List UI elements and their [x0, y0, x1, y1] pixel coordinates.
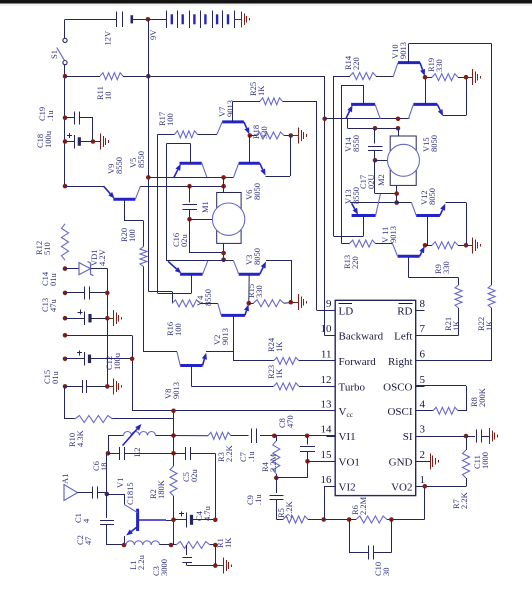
pin 10 Backward	[327, 335, 336, 337]
transistor V14 8550	[351, 103, 375, 106]
pin 15 VO1	[327, 461, 336, 463]
capacitor C16 02u	[187, 184, 192, 189]
antenna A1	[64, 485, 78, 501]
wire VI2 pin16	[321, 517, 326, 522]
svg-text:2.2M: 2.2M	[358, 496, 368, 515]
resistor R5 2.2K	[276, 519, 283, 521]
transistor V12 8050	[416, 214, 440, 217]
svg-text:Forward: Forward	[339, 356, 377, 368]
svg-text:C1815: C1815	[125, 482, 135, 505]
svg-text:7: 7	[420, 323, 426, 335]
svg-text:8050: 8050	[252, 183, 262, 200]
svg-text:V1: V1	[115, 478, 125, 488]
capacitor C9 .1u	[276, 478, 278, 493]
svg-text:1000: 1000	[480, 452, 490, 469]
svg-text:2: 2	[420, 449, 426, 461]
switch S1	[64, 19, 66, 38]
inductor L1 2.2u	[126, 541, 160, 545]
svg-text:4.7u: 4.7u	[202, 505, 212, 521]
resistor R24 1K	[233, 360, 273, 362]
resistor R20 100	[143, 221, 145, 247]
svg-text:Turbo: Turbo	[339, 381, 366, 393]
pin 12 Turbo	[327, 386, 336, 388]
resistor R1 1K	[176, 542, 210, 549]
wire V11 base	[408, 256, 410, 277]
svg-text:8550: 8550	[136, 151, 146, 168]
resistor R8 200K	[416, 385, 466, 387]
wire Right pin6	[424, 360, 491, 362]
resistor R14 220	[333, 76, 350, 78]
svg-text:330: 330	[434, 59, 444, 72]
ground at GND pin2	[424, 461, 430, 463]
node 12V+ / 9V tap junction	[146, 17, 151, 22]
svg-text:9V: 9V	[148, 29, 158, 40]
svg-text:5: 5	[420, 374, 426, 386]
svg-text:1K: 1K	[484, 320, 494, 331]
wire R4 bottom	[276, 477, 307, 479]
svg-text:220: 220	[351, 57, 361, 70]
resistor R16 100	[148, 291, 172, 293]
wire LD pin9 rail	[316, 101, 318, 310]
wire antenna node	[106, 453, 108, 518]
svg-text:6: 6	[420, 349, 426, 361]
resistor R12 510	[62, 224, 69, 260]
resistor R4 2.2M	[273, 441, 280, 474]
resistor R10 4.3K	[64, 386, 66, 419]
capacitor C18 100u electrolytic	[63, 139, 68, 144]
svg-text:100: 100	[165, 113, 175, 126]
wire Left pin7	[424, 335, 458, 337]
wire right bridge top rail	[325, 118, 410, 120]
svg-text:SI: SI	[403, 431, 413, 443]
ground at C11	[489, 428, 491, 444]
svg-text:LD: LD	[339, 305, 354, 317]
svg-text:2.2K: 2.2K	[459, 491, 469, 509]
capacitor C19 .1u	[63, 116, 68, 121]
transistor V3 8050	[239, 273, 260, 276]
wire bridge left top rail	[146, 175, 151, 180]
svg-text:8: 8	[420, 298, 426, 310]
svg-text:30: 30	[381, 568, 391, 577]
pin 4 OSCI	[416, 410, 425, 412]
capacitor C12 100u electrolytic	[63, 357, 68, 362]
svg-text:1K: 1K	[451, 320, 461, 331]
top border bar	[0, 0, 532, 4]
svg-text:510: 510	[42, 242, 52, 255]
ground at C13	[113, 310, 115, 326]
svg-text:1K: 1K	[274, 341, 284, 352]
svg-text:470: 470	[285, 415, 295, 428]
ground at R19	[472, 69, 474, 85]
transistor V8 9013	[180, 364, 202, 367]
wire SI pin3	[424, 436, 466, 438]
node rail-R11	[63, 74, 68, 79]
svg-text:2.2u: 2.2u	[136, 554, 146, 570]
resistor R18 330	[248, 133, 253, 138]
pin 6 Right	[416, 360, 425, 362]
ground at C18	[100, 134, 102, 150]
capacitor C11 1000	[466, 436, 475, 438]
wire bridge bottom rail	[166, 260, 233, 262]
motor M2	[398, 128, 400, 136]
pin 7 Left	[416, 335, 425, 337]
ground at C15	[113, 378, 115, 394]
wire R17 bus to V4 base	[157, 134, 159, 293]
capacitor C5 02u	[174, 453, 186, 455]
transistor V4 8550	[180, 273, 203, 276]
capacitor C14 01u	[63, 291, 68, 296]
zener diode VD1 4.2V	[63, 266, 68, 271]
ground at 9V battery	[241, 11, 243, 27]
capacitor C13 47u electrolytic	[63, 316, 68, 321]
svg-text:220: 220	[350, 256, 360, 269]
svg-text:OSCO: OSCO	[383, 381, 412, 393]
transistor V15 8050	[413, 103, 437, 106]
capacitor C4 4.7u electrolytic	[171, 518, 176, 523]
resistor R11 10	[65, 76, 100, 78]
resistor R21 1K	[455, 285, 462, 308]
svg-text:RD: RD	[397, 305, 412, 317]
svg-text:1K: 1K	[274, 368, 284, 379]
svg-text:180K: 180K	[156, 479, 166, 499]
svg-text:47: 47	[83, 537, 93, 546]
svg-text:13: 13	[321, 398, 333, 410]
svg-text:1: 1	[420, 474, 426, 486]
transistor V13 8550	[352, 214, 376, 217]
resistor R19 330	[423, 75, 428, 80]
transistor V5 8550	[180, 162, 202, 165]
transistor V1 C1815	[136, 509, 139, 531]
wire left rail upper	[64, 65, 66, 186]
svg-text:100: 100	[127, 229, 137, 242]
wire VO1 pin15	[308, 461, 336, 463]
pin 5 OSCO	[416, 386, 425, 388]
svg-text:9013: 9013	[388, 226, 398, 243]
wire right bridge bottom rail	[350, 202, 411, 204]
svg-text:9013: 9013	[171, 382, 181, 399]
svg-text:8050: 8050	[427, 188, 437, 205]
svg-text:10: 10	[321, 323, 333, 335]
wire 9V rail A	[148, 19, 150, 291]
svg-text:.1u: .1u	[253, 494, 263, 505]
svg-text:330: 330	[254, 285, 264, 298]
svg-text:VI1: VI1	[339, 431, 356, 443]
svg-text:12V: 12V	[103, 30, 113, 46]
transistor V2 9013	[221, 314, 245, 317]
capacitor C15 01u	[63, 384, 68, 389]
resistor R17 100	[158, 134, 175, 136]
svg-text:11: 11	[321, 349, 332, 361]
capacitor C10 30	[349, 520, 351, 553]
svg-text:9013: 9013	[398, 42, 408, 59]
svg-text:9013: 9013	[225, 100, 235, 117]
svg-text:3000: 3000	[159, 559, 169, 576]
capacitor C1 4	[92, 487, 94, 499]
resistor R7 2.2K	[463, 450, 470, 478]
svg-text:M1: M1	[200, 201, 210, 213]
svg-text:1K: 1K	[256, 85, 266, 96]
ground at R9	[472, 237, 474, 253]
svg-text:1K: 1K	[223, 537, 233, 548]
transistor V11 9013	[398, 255, 420, 258]
wire Vcc feed from left rail	[63, 333, 68, 338]
svg-text:3: 3	[420, 424, 426, 436]
svg-text:4.2V: 4.2V	[97, 248, 107, 266]
svg-text:.1u: .1u	[45, 110, 55, 121]
inductor L2 variable	[171, 433, 176, 438]
svg-text:330: 330	[441, 261, 451, 274]
pin 9 LD	[327, 310, 336, 312]
resistor R23 1K	[274, 383, 299, 390]
svg-text:12: 12	[321, 374, 332, 386]
svg-text:OSCI: OSCI	[387, 406, 412, 418]
pin 13 Vcc	[327, 410, 336, 412]
capacitor C8 470	[307, 436, 309, 445]
svg-text:01u: 01u	[50, 371, 60, 385]
svg-text:Left: Left	[394, 331, 412, 343]
svg-text:2.2K: 2.2K	[284, 500, 294, 518]
svg-text:Right: Right	[388, 356, 412, 368]
capacitor C6 18	[108, 436, 110, 454]
svg-text:VO1: VO1	[339, 456, 360, 468]
svg-text:GND: GND	[389, 456, 413, 468]
svg-text:.1u: .1u	[246, 451, 256, 462]
svg-text:47u: 47u	[48, 299, 58, 313]
resistor R6 2.2M	[347, 517, 352, 522]
svg-text:100u: 100u	[43, 130, 53, 148]
svg-text:4: 4	[420, 398, 426, 410]
capacitor C3 3000	[186, 545, 188, 555]
svg-text:9013: 9013	[220, 328, 230, 345]
svg-text:8050: 8050	[429, 135, 439, 152]
svg-text:02U: 02U	[366, 174, 376, 189]
pin 2 GND	[416, 461, 425, 463]
wire backward/right-bridge feed	[324, 76, 326, 335]
node V1 emitter	[122, 543, 127, 548]
resistor R25 1K	[233, 101, 260, 103]
wire VI1 pin14	[272, 434, 277, 439]
resistor R22 1K	[488, 285, 495, 308]
svg-text:VO2: VO2	[391, 481, 412, 493]
transistor V6 8050	[239, 162, 260, 165]
svg-text:4.3K: 4.3K	[75, 429, 85, 447]
wire Vcc rail receiver	[171, 409, 176, 414]
ground at C3	[223, 558, 225, 574]
wire VO2 loop	[424, 486, 426, 519]
resistor R15 330	[247, 301, 252, 306]
svg-text:100: 100	[173, 323, 183, 336]
pin 3 SI	[416, 436, 425, 438]
battery GB1 12V	[65, 19, 117, 21]
pin 14 VI1	[327, 436, 336, 438]
capacitor C7 .1u	[251, 429, 253, 444]
svg-text:10: 10	[103, 92, 113, 101]
pin 16 VI2	[327, 486, 336, 488]
capacitor C2 47	[100, 520, 114, 522]
svg-text:A1: A1	[60, 474, 70, 484]
svg-text:02u: 02u	[179, 234, 189, 248]
ground at R18	[298, 128, 300, 144]
svg-text:2.2M: 2.2M	[268, 453, 278, 472]
node 9V rail A top	[146, 74, 151, 79]
transistor V10 9013	[398, 61, 420, 64]
svg-text:14: 14	[321, 424, 333, 436]
svg-text:2.2K: 2.2K	[224, 444, 234, 462]
transistor V7 9013	[222, 120, 244, 123]
svg-text:Backward: Backward	[339, 331, 384, 343]
svg-text:16: 16	[321, 474, 333, 486]
svg-text:S1: S1	[49, 50, 59, 59]
resistor R13 220	[342, 243, 350, 245]
resistor R9 330	[423, 243, 428, 248]
motor M1	[221, 175, 226, 180]
svg-text:M2: M2	[376, 174, 386, 186]
resistor R3 2.2K	[174, 435, 209, 437]
line y=128 feed	[347, 119, 349, 129]
resistor R2 180K	[170, 466, 177, 496]
svg-text:330: 330	[259, 126, 269, 139]
ground at R15	[298, 294, 300, 310]
capacitor C17 02U	[373, 126, 378, 131]
svg-text:01u: 01u	[48, 273, 58, 287]
svg-text:VI2: VI2	[339, 481, 356, 493]
svg-text:8050: 8050	[252, 248, 262, 265]
svg-text:9: 9	[326, 298, 332, 310]
IC U1 RX-2 receiver	[335, 300, 416, 495]
svg-text:8550: 8550	[351, 135, 361, 152]
pin 8 RD	[416, 310, 425, 312]
svg-text:15: 15	[321, 449, 333, 461]
transistor V9 8550	[113, 198, 135, 201]
svg-text:02u: 02u	[189, 469, 199, 483]
pin 1 VO2	[416, 486, 425, 488]
svg-text:8550: 8550	[114, 157, 124, 174]
pin 11 Forward	[327, 360, 336, 362]
svg-text:8550: 8550	[351, 187, 361, 204]
svg-text:200K: 200K	[477, 387, 487, 407]
svg-text:100u: 100u	[112, 352, 122, 370]
svg-text:18: 18	[99, 463, 109, 472]
svg-text:L2: L2	[132, 448, 142, 457]
battery GB2 9V	[148, 19, 167, 21]
